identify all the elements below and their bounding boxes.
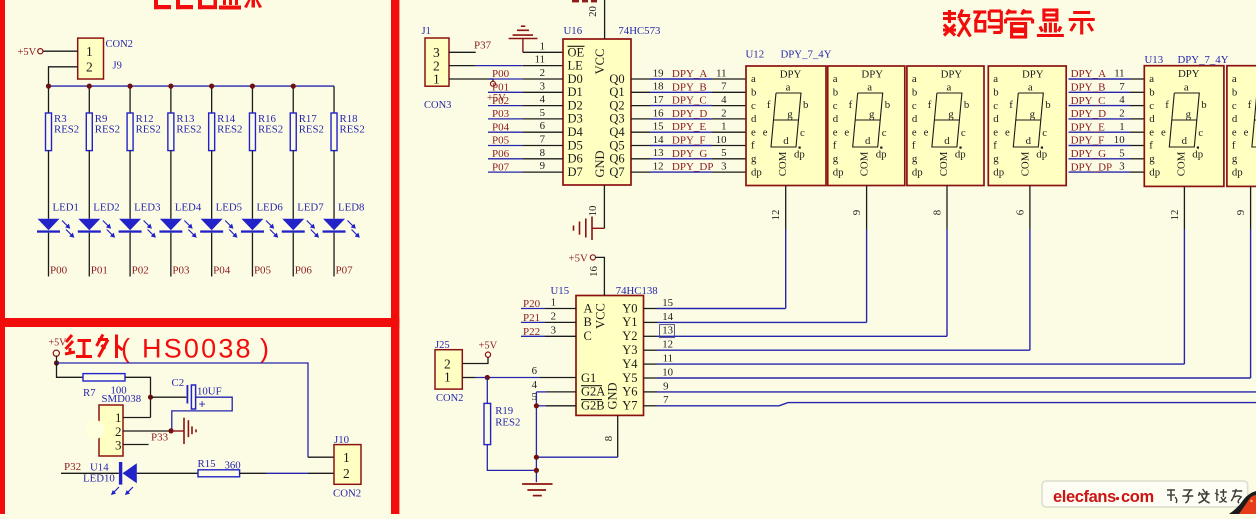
wire bus to R9	[88, 86, 90, 113]
resistor R3	[46, 113, 80, 151]
frame right border of panels	[391, 0, 399, 514]
svg-text:DPY: DPY	[780, 69, 802, 81]
ground (OE net)	[509, 26, 538, 52]
label U13	[1145, 54, 1164, 66]
svg-text:7: 7	[721, 81, 727, 93]
svg-text:J25: J25	[435, 340, 450, 351]
svg-text:1: 1	[551, 297, 556, 309]
label J25	[435, 340, 450, 351]
wire U16 Q3 to U12 (DPY_D)	[631, 118, 650, 120]
svg-text:Q5: Q5	[609, 138, 624, 152]
junction	[54, 360, 59, 365]
svg-text:b: b	[993, 87, 998, 99]
wire LED3 to port	[129, 233, 131, 277]
junction	[534, 455, 539, 460]
label U16	[564, 25, 583, 37]
wire J25.2 to +5V	[462, 357, 488, 363]
svg-text:RES2: RES2	[54, 124, 79, 136]
junction	[534, 468, 539, 473]
svg-text:DPY_A: DPY_A	[1071, 68, 1107, 80]
wire bus to R14	[211, 86, 213, 113]
svg-text:P33: P33	[151, 431, 169, 443]
svg-text:RES2: RES2	[340, 124, 365, 136]
svg-text:g: g	[1149, 153, 1155, 165]
svg-text:DPY_B: DPY_B	[1071, 82, 1106, 94]
connector J1	[425, 38, 449, 87]
LED LED4	[159, 202, 201, 238]
label DPY_7_4Y (U13)	[1178, 54, 1229, 66]
svg-text:D2: D2	[568, 98, 583, 112]
svg-text:LED3: LED3	[134, 202, 160, 214]
svg-text:J10: J10	[334, 434, 349, 446]
svg-text:e: e	[1232, 126, 1237, 138]
svg-text:dp: dp	[1232, 166, 1243, 178]
wire P20 to U15	[521, 308, 545, 310]
wire LED1 to port	[48, 233, 50, 277]
svg-text:9: 9	[663, 380, 668, 392]
junction	[168, 428, 173, 433]
svg-text:dp: dp	[955, 149, 966, 161]
resistor R9	[86, 113, 120, 151]
wire R9 to LED2	[88, 151, 90, 219]
svg-text:3: 3	[540, 80, 545, 92]
svg-text:f: f	[1165, 99, 1169, 111]
selection box around pin number 13	[660, 325, 675, 338]
svg-text:19: 19	[653, 67, 664, 79]
svg-text:DPY_G: DPY_G	[1071, 148, 1107, 160]
svg-text:b: b	[833, 87, 838, 99]
svg-text:g: g	[751, 153, 757, 165]
svg-text:DPY_G: DPY_G	[672, 148, 708, 160]
node P00	[50, 265, 68, 277]
svg-text:P03: P03	[492, 108, 510, 120]
svg-text:R19: R19	[495, 405, 513, 417]
svg-text:COM: COM	[1019, 151, 1031, 176]
svg-text:3: 3	[721, 161, 726, 173]
svg-text:LED6: LED6	[256, 202, 283, 214]
svg-text:e: e	[844, 127, 849, 139]
svg-text:a: a	[1028, 81, 1033, 93]
svg-text:Q7: Q7	[609, 165, 624, 179]
svg-text:Q4: Q4	[609, 125, 625, 139]
svg-text:360: 360	[225, 459, 241, 471]
label SMD038	[102, 393, 142, 405]
svg-text:DPY_F: DPY_F	[1071, 135, 1105, 147]
svg-text:g: g	[787, 108, 793, 120]
wire R16 to LED6	[251, 151, 253, 219]
node P02	[132, 265, 149, 277]
svg-text:): )	[260, 334, 269, 364]
junction	[87, 84, 92, 89]
svg-text:15: 15	[662, 297, 673, 309]
label 74HC138	[616, 285, 658, 297]
svg-text:d: d	[1232, 113, 1238, 125]
junction	[485, 375, 490, 380]
svg-text:DPY: DPY	[1022, 69, 1044, 81]
svg-text:LED10: LED10	[83, 472, 115, 484]
svg-text:5: 5	[540, 107, 545, 119]
ground (U15)	[522, 484, 552, 496]
svg-text:5: 5	[1119, 147, 1124, 159]
svg-text:dp: dp	[876, 149, 887, 161]
wire J9 pin2 to +5V bus	[49, 67, 78, 86]
svg-text:LE: LE	[568, 59, 584, 73]
wire P07 to U16 D7	[488, 171, 523, 173]
svg-text:14: 14	[662, 311, 673, 323]
svg-text:P21: P21	[523, 312, 540, 324]
wire +5V to J9 pin1	[43, 50, 78, 52]
svg-text:c: c	[961, 127, 966, 139]
svg-text:b: b	[1201, 99, 1206, 111]
node P06	[295, 265, 313, 277]
svg-text:9: 9	[851, 210, 863, 215]
wire R14 to LED5	[211, 151, 213, 219]
svg-text:U13: U13	[1145, 54, 1164, 66]
svg-text:8: 8	[540, 147, 545, 159]
label 74HC573	[618, 25, 660, 37]
svg-text:P02: P02	[132, 265, 149, 277]
svg-text:2: 2	[343, 466, 350, 481]
svg-text:Y6: Y6	[622, 385, 637, 399]
resistor R19	[484, 378, 520, 445]
svg-text:1: 1	[86, 44, 93, 59]
svg-text:a: a	[867, 81, 872, 93]
wire R17 to LED7	[292, 151, 294, 219]
svg-text:a: a	[833, 73, 838, 85]
label U12	[746, 49, 765, 61]
svg-text:3: 3	[115, 438, 122, 453]
svg-text:DPY_C: DPY_C	[672, 95, 707, 107]
wire U12 to U13 (DPY_E)	[1069, 131, 1131, 133]
wire U16 Q6 to U12 (DPY_G)	[631, 158, 650, 160]
svg-text:g: g	[1186, 108, 1192, 120]
wire LED10 to R15	[137, 472, 198, 474]
svg-text:c: c	[1042, 127, 1047, 139]
svg-text:J1: J1	[422, 26, 431, 37]
pin U14.3 stub	[123, 444, 149, 446]
title digital tube display (shuma guan xianshi)	[943, 10, 1095, 38]
node P04	[213, 265, 231, 277]
svg-text:P32: P32	[64, 461, 81, 473]
svg-text:11: 11	[663, 353, 673, 365]
svg-text:c: c	[751, 100, 756, 112]
svg-text:e: e	[924, 127, 929, 139]
svg-text:U12: U12	[746, 49, 765, 61]
wire U12 to U13 (DPY_DP)	[1069, 171, 1131, 173]
svg-text:d: d	[944, 135, 950, 147]
mascot (clipped corner)	[1229, 491, 1256, 514]
svg-text:12: 12	[770, 210, 782, 221]
wire U12 to U13 (DPY_D)	[1069, 118, 1131, 120]
svg-text:G2B: G2B	[581, 399, 605, 413]
wire U15 Y1	[644, 321, 658, 323]
power +5V VCC pin 20 (clipped)	[572, 0, 605, 39]
wire R18 to LED8	[333, 151, 335, 219]
svg-text:Y0: Y0	[622, 301, 637, 315]
svg-text:4: 4	[540, 94, 546, 106]
wire J1.1 to +5V	[449, 79, 493, 81]
junction	[209, 84, 214, 89]
wire U12 to U13 (DPY_F)	[1069, 145, 1131, 147]
wire R3 to LED1	[48, 151, 50, 219]
svg-text:RES2: RES2	[176, 124, 201, 136]
svg-text:LED2: LED2	[93, 202, 119, 214]
svg-text:C2: C2	[172, 377, 185, 389]
svg-text:RES2: RES2	[495, 416, 520, 428]
svg-text:P04: P04	[492, 121, 510, 133]
svg-text:d: d	[783, 135, 789, 147]
IC U15 74HC138	[576, 296, 644, 416]
svg-text:d: d	[751, 113, 757, 125]
wire LED8 to port	[333, 233, 335, 277]
svg-text:COM: COM	[1175, 151, 1187, 176]
svg-text:P05: P05	[492, 135, 510, 147]
IR receiver U14 SMD038	[86, 405, 124, 456]
svg-text:g: g	[833, 153, 839, 165]
svg-text:DPY_E: DPY_E	[1071, 121, 1106, 133]
svg-text:f: f	[849, 99, 853, 111]
wire bus to R17	[292, 86, 294, 113]
svg-text:c: c	[800, 127, 805, 139]
svg-text:74HC573: 74HC573	[618, 25, 660, 37]
frame left border of panels	[0, 0, 5, 514]
svg-text:6: 6	[1014, 209, 1026, 215]
svg-text:b: b	[964, 99, 969, 111]
svg-text:Y4: Y4	[622, 357, 638, 371]
wire U16 Q1 to U12 (DPY_B)	[631, 91, 650, 93]
svg-text:D1: D1	[568, 85, 583, 99]
label J1	[422, 26, 431, 37]
svg-text:d: d	[833, 113, 839, 125]
svg-text:14: 14	[653, 134, 664, 146]
junction	[148, 395, 153, 400]
wire U12 to U13 (DPY_A)	[1069, 78, 1131, 80]
svg-text:2: 2	[1119, 108, 1124, 120]
wire LED2 to port	[88, 233, 90, 277]
IC U13 DPY_7_4Y digit 1	[1144, 66, 1224, 187]
svg-text:P02: P02	[492, 95, 509, 107]
svg-text:P05: P05	[254, 265, 272, 277]
svg-text:RES2: RES2	[95, 124, 120, 136]
wire C2 to ground node	[172, 397, 232, 431]
svg-text:D0: D0	[568, 72, 583, 86]
svg-text:c: c	[993, 100, 998, 112]
power +5V (U15 VCC pin16)	[569, 252, 605, 295]
svg-text:7: 7	[540, 134, 546, 146]
svg-text:7: 7	[663, 394, 669, 406]
power +5V (IR)	[49, 338, 68, 357]
svg-text:e: e	[833, 126, 838, 138]
LED LED10	[83, 462, 137, 495]
svg-text:G2A: G2A	[581, 385, 605, 399]
svg-text:g: g	[869, 108, 875, 120]
svg-text:RES2: RES2	[258, 124, 283, 136]
pin COM 6 stem	[1029, 186, 1031, 230]
svg-text:f: f	[1149, 140, 1153, 152]
svg-text:10: 10	[587, 206, 599, 217]
frame divider between LED panel and IR panel	[0, 318, 399, 327]
svg-text:P00: P00	[492, 68, 510, 80]
svg-text:11: 11	[535, 54, 545, 66]
wire P21 to U15	[521, 321, 545, 323]
LED LED7	[282, 202, 324, 238]
svg-text:CON3: CON3	[424, 100, 451, 111]
svg-text:RES2: RES2	[136, 124, 161, 136]
power +5V (J25)	[479, 340, 498, 357]
svg-text:e: e	[1005, 127, 1010, 139]
svg-text:Q6: Q6	[609, 152, 624, 166]
svg-text:11: 11	[716, 67, 726, 79]
svg-text:P07: P07	[336, 265, 354, 277]
wire P00 to U16 D0	[488, 78, 523, 80]
svg-text:13: 13	[662, 325, 673, 337]
svg-text:d: d	[993, 113, 999, 125]
svg-text:f: f	[1248, 99, 1252, 111]
IC U12 DPY_7_4Y digit 1	[746, 66, 826, 186]
title LED display (clipped at top)	[154, 0, 262, 10]
wire node to C2	[151, 396, 187, 398]
svg-text:10: 10	[1114, 134, 1125, 146]
wire U12 to U13 (DPY_G)	[1069, 158, 1131, 160]
svg-text:Q2: Q2	[609, 98, 624, 112]
svg-text:dp: dp	[1149, 166, 1160, 178]
svg-text:f: f	[993, 140, 997, 152]
resistor R16	[249, 113, 283, 151]
svg-text:DPY_7_4Y: DPY_7_4Y	[1178, 54, 1229, 66]
svg-text:DPY_DP: DPY_DP	[1071, 161, 1113, 173]
power +5V (J9)	[18, 47, 43, 58]
svg-text:13: 13	[653, 147, 664, 159]
ground (P33 node, pointing right)	[171, 418, 196, 444]
label CON2 (J10)	[333, 487, 361, 499]
svg-text:b: b	[1045, 99, 1050, 111]
svg-text:+5V: +5V	[479, 340, 498, 351]
svg-text:9: 9	[540, 160, 545, 172]
junction	[127, 84, 132, 89]
svg-text:Q0: Q0	[609, 72, 624, 86]
svg-text:10UF: 10UF	[197, 386, 222, 398]
resistor R15 360	[198, 458, 241, 477]
svg-text:a: a	[786, 81, 791, 93]
wire U16 Q2 to U12 (DPY_C)	[631, 105, 650, 107]
wire J1.2 to U16 LE	[449, 65, 563, 67]
wire R15 to J10 pin2	[240, 472, 334, 474]
svg-text:c: c	[1232, 100, 1237, 112]
svg-text:e: e	[1149, 126, 1154, 138]
svg-text:Q3: Q3	[609, 112, 624, 126]
label J9	[113, 61, 122, 72]
IC U12 digit 2	[828, 66, 905, 186]
LED LED8	[323, 202, 365, 238]
IC U12 digit 3	[907, 66, 984, 186]
wire bus to R12	[129, 86, 131, 113]
wire R19 to ground node	[487, 445, 536, 471]
svg-text:b: b	[803, 99, 808, 111]
svg-text:4: 4	[721, 94, 727, 106]
svg-text:c: c	[1198, 127, 1203, 139]
svg-text:e: e	[1161, 127, 1166, 139]
svg-text:5: 5	[721, 147, 726, 159]
svg-text:e: e	[1244, 127, 1249, 139]
junction	[250, 84, 255, 89]
svg-text:dp: dp	[912, 166, 923, 178]
svg-text:G1: G1	[581, 371, 596, 385]
LED LED6	[241, 202, 283, 238]
svg-text:RES2: RES2	[299, 124, 324, 136]
svg-text:com: com	[1121, 488, 1154, 506]
svg-text:DPY: DPY	[1178, 68, 1200, 80]
svg-text:dp: dp	[833, 166, 844, 178]
svg-text:Y7: Y7	[622, 399, 637, 413]
svg-text:(: (	[121, 334, 130, 364]
svg-text:a: a	[912, 73, 917, 85]
svg-text:DPY_B: DPY_B	[672, 81, 707, 93]
wire U15 Y7	[644, 405, 658, 407]
svg-text:COM: COM	[777, 151, 789, 176]
svg-text:b: b	[912, 87, 917, 99]
svg-text:17: 17	[653, 94, 664, 106]
svg-text:a: a	[1149, 73, 1154, 85]
svg-text:f: f	[928, 99, 932, 111]
wire R12 to LED3	[129, 151, 131, 219]
wire U15 Y0	[644, 308, 658, 310]
pin number 8	[603, 436, 615, 441]
svg-text:g: g	[948, 108, 954, 120]
wire ground to U16 OE	[523, 51, 563, 53]
wire U15 Y2	[644, 335, 658, 337]
resistor R13	[168, 113, 202, 151]
wire bus to R13	[170, 86, 172, 113]
node P33	[151, 431, 169, 443]
pin number 16	[588, 266, 600, 277]
pin COM 8 stem	[946, 186, 948, 230]
wire J25.1 to U15 G1	[462, 377, 576, 379]
svg-text:a: a	[1184, 81, 1189, 93]
svg-text:Y3: Y3	[622, 343, 637, 357]
IC U16 74HC573	[563, 39, 631, 185]
svg-text:dp: dp	[794, 149, 805, 161]
svg-text:DPY_7_4Y: DPY_7_4Y	[781, 49, 832, 61]
svg-text:Y5: Y5	[622, 371, 637, 385]
node P37	[474, 40, 492, 52]
svg-text:f: f	[767, 99, 771, 111]
pin COM 12 stem	[1183, 186, 1185, 229]
svg-text:a: a	[751, 73, 756, 85]
svg-text:a: a	[1232, 73, 1237, 85]
svg-text:d: d	[1149, 113, 1155, 125]
wire U16 Q0 to U12 (DPY_A)	[631, 78, 650, 80]
svg-text:g: g	[1232, 153, 1238, 165]
svg-text:c: c	[1149, 100, 1154, 112]
wire U12 to U13 (DPY_B)	[1069, 91, 1131, 93]
svg-text:3: 3	[551, 324, 556, 336]
wire bus to R16	[251, 86, 253, 113]
wire U15 G2A/G2B to ground	[536, 392, 576, 482]
svg-text:RES2: RES2	[217, 124, 242, 136]
junction	[46, 84, 51, 89]
label CON2 (J25)	[436, 393, 463, 404]
svg-text:d: d	[912, 113, 918, 125]
svg-text:c: c	[912, 100, 917, 112]
pin U14.1	[123, 417, 151, 419]
IC U12 digit 4	[988, 66, 1066, 186]
label J10	[334, 434, 349, 446]
wire P06 to U16 D6	[488, 158, 523, 160]
svg-text:LED1: LED1	[53, 202, 79, 214]
svg-text:f: f	[1009, 99, 1013, 111]
svg-text:OE: OE	[568, 45, 585, 59]
svg-text:P06: P06	[492, 148, 510, 160]
